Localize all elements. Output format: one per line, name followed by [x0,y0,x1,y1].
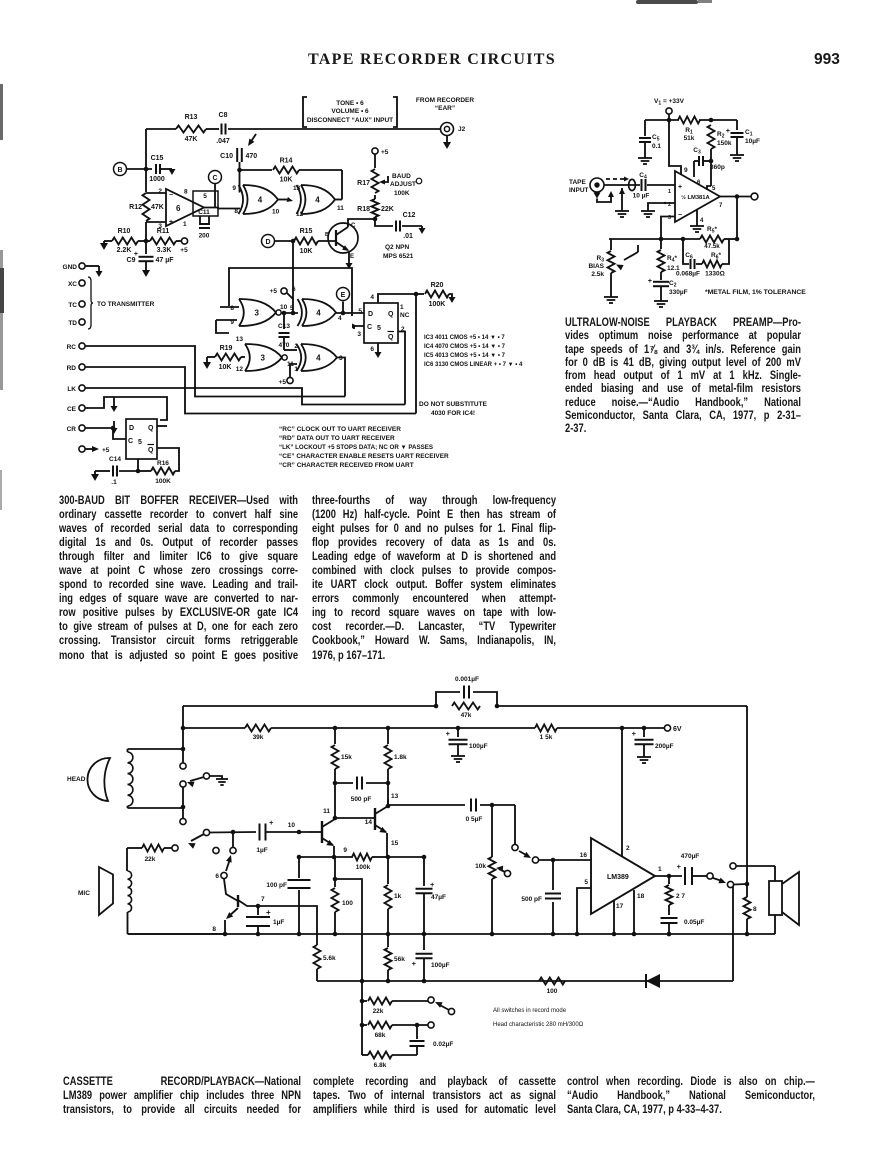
svg-text:TC: TC [68,302,77,309]
ground under C5 [638,158,652,164]
arrow from aux note [248,134,256,146]
svg-text:4: 4 [370,294,374,301]
svg-text:100: 100 [342,900,353,907]
capacitor 470uF [677,853,707,885]
svg-text:1: 1 [400,304,404,311]
svg-text:C8: C8 [219,112,228,119]
svg-text:C6: C6 [685,252,693,261]
svg-text:LM389: LM389 [607,874,629,881]
scan artifact top smudge [636,0,698,4]
svg-text:R17: R17 [357,180,370,187]
wire pin2 gnd [648,202,675,211]
svg-text:0.001µF: 0.001µF [455,676,479,683]
op-amp U1 LM381A [668,171,723,224]
svg-text:4: 4 [258,195,263,204]
terminal RC [67,343,345,397]
svg-text:1: 1 [658,866,662,873]
svg-text:3: 3 [255,308,260,317]
svg-text:B: B [325,232,329,238]
svg-text:BAUD: BAUD [392,173,411,180]
wire op-amp output [204,208,240,209]
svg-text:IC5 4013 CMOS +5 • 14 ▼ • 7: IC5 4013 CMOS +5 • 14 ▼ • 7 [424,353,506,359]
capacitor C1 [726,120,760,155]
svg-text:1µF: 1µF [273,919,284,926]
svg-text:IC6 3130 CMOS LINEAR + • 7 ▼: IC6 3130 CMOS LINEAR + • 7 ▼ • 4 [424,362,523,368]
resistor 1k [385,857,402,936]
wire sw2 to cap [209,830,256,835]
svg-text:68k: 68k [375,1032,386,1039]
svg-text:8: 8 [230,305,234,312]
svg-text:12.1: 12.1 [667,265,680,272]
wire ff pin4 to R20 [378,292,418,303]
resistor R5 [700,226,724,250]
svg-text:5: 5 [290,305,294,312]
wire top rail to J2 [146,128,440,130]
resistor 22k mic [127,845,172,872]
capacitor 0.05uF [661,918,705,936]
svg-text:.047: .047 [216,138,230,145]
svg-text:FROM RECORDER: FROM RECORDER [416,97,474,104]
svg-text:+: + [677,862,682,871]
potentiometer R3 bias [588,239,638,297]
xor gate IC4b [278,185,344,218]
svg-text:4: 4 [700,218,704,224]
wire left vertical tie [181,706,186,752]
svg-text:6: 6 [370,346,374,353]
inductor head coil [128,749,133,808]
label 10 [288,822,296,829]
resistor 100 lower [539,978,565,996]
svg-text:22k: 22k [145,856,156,863]
svg-text:47 µF: 47 µF [156,257,175,264]
svg-text:R18: R18 [357,206,370,213]
svg-text:0.1: 0.1 [652,143,661,150]
scan artifact left edge [0,84,3,140]
svg-text:CE: CE [67,406,77,413]
svg-text:8: 8 [753,906,757,913]
svg-text:Q: Q [148,425,154,432]
svg-text:5: 5 [203,193,207,200]
svg-text:0.05µF: 0.05µF [684,919,704,926]
switch S4 agc [428,997,455,1015]
svg-text:6: 6 [292,286,296,293]
svg-text:8: 8 [234,208,238,215]
capacitor 1uF in [256,818,309,854]
wire pin3 to node [661,217,675,240]
svg-text:39k: 39k [253,734,264,741]
svg-text:Q: Q [148,447,154,454]
svg-text:VOLUME • 6: VOLUME • 6 [331,108,369,115]
svg-text:C: C [351,223,356,229]
wire lower rail [317,980,733,982]
svg-text:R10: R10 [118,228,131,235]
wire output [720,194,751,199]
svg-text:+: + [412,959,417,968]
capacitor C12 [373,212,426,240]
svg-text:22K: 22K [381,206,394,213]
wire ground rail [128,932,776,937]
capacitor C8 [216,112,230,145]
svg-text:5: 5 [584,879,588,886]
resistor R12 [129,193,164,221]
svg-text:0 5µF: 0 5µF [466,816,483,823]
svg-text:1: 1 [294,366,298,373]
svg-text:12: 12 [296,211,304,218]
wire diode to switch [732,884,734,981]
node E [337,288,350,301]
switch S5 [512,805,591,863]
svg-text:500 pF: 500 pF [351,796,372,803]
resistor R1 [678,117,700,143]
wire input line [604,184,675,186]
svg-text:+5: +5 [102,447,110,454]
ground under R3 [604,297,618,303]
svg-text:+: + [169,219,173,226]
svg-text:1: 1 [668,189,671,195]
svg-text:5: 5 [358,308,362,315]
svg-text:B: B [117,167,122,174]
svg-text:360p: 360p [710,164,725,171]
wire pin1 out [655,874,682,879]
terminal 6V [664,725,681,733]
svg-text:10: 10 [280,304,288,311]
svg-text:1330Ω: 1330Ω [705,271,725,278]
svg-text:+5: +5 [381,149,389,156]
capacitor 0.001uF [436,676,497,706]
svg-text:“CR” CHARACTER RECEIVED FROM: “CR” CHARACTER RECEIVED FROM UART [279,462,414,469]
wire right feedback drop [746,706,748,884]
plug tip [629,179,636,190]
svg-text:2.5k: 2.5k [591,271,604,278]
wire supply rail [183,726,664,731]
resistor R10 [110,228,138,254]
inductor mic coil [128,871,132,927]
svg-text:C14: C14 [109,456,121,463]
svg-text:14: 14 [365,819,373,826]
signal legend [279,426,449,469]
terminal +5 pin6 [270,286,296,299]
svg-text:2 7: 2 7 [676,893,685,900]
svg-text:10 µF: 10 µF [633,193,650,200]
capacitor C9 [127,241,175,277]
svg-text:100K: 100K [429,301,446,308]
wire output to R5 rail [736,197,738,240]
resistor R4 [658,239,681,280]
transistor Q2 [325,219,414,269]
svg-text:4: 4 [316,308,321,317]
svg-text:“EAR”: “EAR” [435,105,455,112]
svg-text:IC4 4070 CMOS +5 • 14 ▼ • 7: IC4 4070 CMOS +5 • 14 ▼ • 7 [424,344,506,350]
wire head loop [128,749,186,809]
svg-text:7: 7 [719,203,723,209]
svg-text:2.2K: 2.2K [117,247,132,254]
svg-text:47µF: 47µF [431,894,446,901]
resistor R14 [237,158,342,200]
ic list note [424,335,523,368]
switch S2 mic [172,829,210,851]
svg-text:LK: LK [67,386,76,393]
svg-text:“RD” DATA OUT TO UART RECEI: “RD” DATA OUT TO UART RECEIVER [279,435,395,442]
svg-text:9: 9 [684,167,688,174]
terminal V1 +33V [654,98,685,122]
svg-text:−: − [678,212,682,219]
switch S6 out [707,863,775,888]
resistor 15k [332,728,353,785]
wire RD return vertical [415,294,417,414]
resistor R20 [417,282,456,308]
capacitor 100uF bot [412,934,450,983]
resistor 1.8k [385,728,408,785]
terminal RD [67,364,416,414]
svg-text:3.3K: 3.3K [157,247,172,254]
svg-text:3: 3 [357,331,361,338]
capacitor C15 [149,155,175,183]
svg-text:INPUT: INPUT [569,187,589,194]
tape input label [569,179,589,194]
svg-text:C9: C9 [127,257,136,264]
ground under C1 [730,155,744,161]
svg-text:200µF: 200µF [655,743,674,750]
resistor 5.6k [314,945,337,981]
svg-text:3: 3 [261,353,266,362]
wire E loop rectangle [229,268,352,316]
svg-text:HEAD: HEAD [67,776,86,783]
capacitor C14 [91,456,140,486]
svg-text:+5: +5 [270,288,278,295]
svg-text:D: D [368,311,373,318]
svg-text:13: 13 [391,793,399,800]
svg-text:C: C [212,175,217,182]
svg-text:“LK” LOCKOUT +5 STOPS DATA: “LK” LOCKOUT +5 STOPS DATA; NC OR ▼ PASS… [279,444,433,451]
svg-text:4: 4 [315,195,320,204]
note bracket tone/volume [303,97,397,127]
svg-text:22k: 22k [373,1008,384,1015]
svg-text:RD: RD [67,365,77,372]
terminal +5 right of R11 [180,238,188,254]
nor gate IC3b [236,336,294,373]
speaker [769,866,799,934]
svg-text:RC: RC [67,344,77,351]
svg-text:9: 9 [232,185,236,192]
svg-text:56k: 56k [394,956,405,963]
svg-text:+: + [632,729,637,738]
svg-text:.01: .01 [403,233,413,240]
svg-text:C2: C2 [669,280,677,289]
svg-text:47k: 47k [461,712,472,719]
terminal GND [63,263,103,277]
resistor 39k [245,725,271,742]
switch S1 head [180,752,228,825]
svg-text:D: D [129,425,134,432]
resistor 6.8k [362,1052,417,1070]
svg-text:TONE • 6: TONE • 6 [336,100,364,107]
svg-text:17: 17 [616,903,624,910]
capacitor C6 and resistor R6 [676,239,729,278]
svg-text:+5: +5 [279,379,287,386]
transistor Q3 [212,879,256,936]
resistor 1.5k [535,725,557,742]
svg-text:+: + [269,818,274,827]
svg-text:5: 5 [712,186,716,192]
wire pin18 [633,890,635,934]
resistor R2 [708,125,732,186]
svg-text:R13: R13 [185,114,198,121]
connector J2 from recorder ear [416,97,474,149]
svg-text:51k: 51k [684,135,695,142]
resistor 100k fb [297,847,388,871]
ground under C2 [654,301,668,307]
svg-text:470: 470 [246,153,258,160]
resistor 22k agc [362,998,428,1016]
wire pin5 [577,888,591,934]
svg-text:4: 4 [338,315,342,322]
resistor R16 [138,448,179,485]
resistor R19 [203,345,245,371]
svg-text:1.8k: 1.8k [394,754,407,761]
svg-text:½ LM381A: ½ LM381A [681,194,710,201]
resistor R11 [138,228,181,254]
potentiometer 10k [475,805,510,934]
transistor Q1 [309,783,337,859]
svg-text:C10: C10 [220,153,233,160]
svg-text:+5: +5 [180,247,188,254]
svg-text:500 pF: 500 pF [521,896,542,903]
svg-text:All switches in record mode: All switches in record mode [493,1008,567,1014]
svg-text:BIAS: BIAS [588,263,604,270]
svg-text:V1 = +33V: V1 = +33V [654,98,685,107]
svg-text:10µF: 10µF [745,138,760,145]
xor gate IC4c [281,299,364,326]
wire node rail [609,237,739,242]
diode D1 [646,974,660,988]
svg-text:8: 8 [184,189,188,196]
svg-text:13: 13 [293,185,301,192]
svg-text:47K: 47K [185,136,198,143]
svg-text:6: 6 [215,873,219,880]
node B [114,163,153,176]
svg-text:100 pF: 100 pF [266,882,287,889]
svg-text:C3: C3 [693,147,701,156]
wire pin4 gnd [690,209,704,232]
svg-text:+: + [430,880,435,889]
svg-text:10: 10 [272,209,280,216]
resistor 47k top [452,703,480,720]
svg-text:MIC: MIC [78,890,90,897]
brace to transmitter [68,277,155,329]
svg-text:100K: 100K [394,190,410,197]
node C [209,171,222,208]
svg-text:4030 FOR IC4!: 4030 FOR IC4! [431,410,475,417]
svg-text:E: E [350,254,354,260]
svg-text:“CE” CHARACTER ENABLE RESETS: “CE” CHARACTER ENABLE RESETS UART RECEIV… [279,453,449,460]
svg-text:DISCONNECT “AUX” INPUT: DISCONNECT “AUX” INPUT [307,117,393,124]
svg-text:E: E [341,292,346,299]
svg-text:6V: 6V [673,726,682,733]
svg-text:15: 15 [391,840,399,847]
svg-text:47K: 47K [151,204,164,211]
svg-text:200: 200 [199,233,210,240]
svg-text:Q: Q [388,334,394,341]
label 13 [391,793,399,800]
node 7 and 1uF cap [246,896,284,936]
arrow gnd input [619,188,625,211]
resistor 100 [332,857,354,936]
wire q1 collector to q2 base [335,817,375,819]
resistor R18 [357,199,394,217]
svg-text:R15: R15 [300,228,313,235]
resistor 56k [385,934,406,983]
terminal CE [67,397,167,420]
svg-text:R6*: R6* [711,252,721,261]
svg-text:3: 3 [339,355,343,362]
svg-text:C4: C4 [639,172,647,181]
resistor R13 [176,114,206,143]
tape head [67,758,110,801]
svg-text:+: + [446,729,451,738]
svg-text:+: + [678,184,682,191]
svg-text:47.5k: 47.5k [704,243,720,250]
capacitor C10 [220,148,257,193]
wire xor2 output [335,199,342,201]
svg-text:R20: R20 [431,282,444,289]
svg-text:16: 16 [580,852,588,859]
svg-text:10k: 10k [475,863,486,870]
wire left vertical [145,129,147,241]
wire top feedback rail [183,704,747,709]
svg-text:11: 11 [323,808,330,815]
svg-text:6.8k: 6.8k [374,1062,387,1069]
arrow ce [111,397,118,412]
wire gnd row [100,241,110,250]
svg-text:1µF: 1µF [256,847,267,854]
svg-text:+: + [726,128,730,135]
capacitor 100pF [266,857,310,936]
switch note [493,1008,584,1028]
svg-text:2: 2 [294,343,298,350]
arrow cr [111,421,118,434]
resistor 8 ohm [744,884,758,934]
svg-text:R5*: R5* [707,226,717,235]
svg-text:+: + [266,908,271,917]
svg-text:11: 11 [337,205,344,212]
wire 7 node right [258,906,317,945]
svg-text:+: + [648,278,652,285]
svg-text:Q2 NPN: Q2 NPN [385,244,410,251]
svg-text:D: D [265,239,270,246]
terminal +5 xor pin1 [279,364,297,386]
svg-text:Q: Q [388,311,394,318]
svg-text:C: C [128,438,133,445]
capacitor 0.02uF [410,1025,454,1055]
svg-text:10: 10 [288,822,296,829]
svg-text:5: 5 [138,439,142,446]
svg-text:18: 18 [637,893,645,900]
svg-text:R2: R2 [717,131,725,140]
wire LK return vertical [398,332,405,405]
svg-text:100k: 100k [356,864,371,871]
svg-text:−: − [169,192,173,199]
svg-text:C1: C1 [745,129,753,138]
wire D node down [292,241,294,313]
svg-text:10K: 10K [280,177,293,184]
svg-text:1000: 1000 [149,176,165,183]
resistor 68k [362,1022,434,1040]
wire sw to speaker node [734,882,750,887]
op-amp IC6 [146,188,204,230]
capacitor 500pF fb [335,777,388,804]
jack tape input [590,178,614,202]
svg-text:ADJUST: ADJUST [390,181,416,188]
